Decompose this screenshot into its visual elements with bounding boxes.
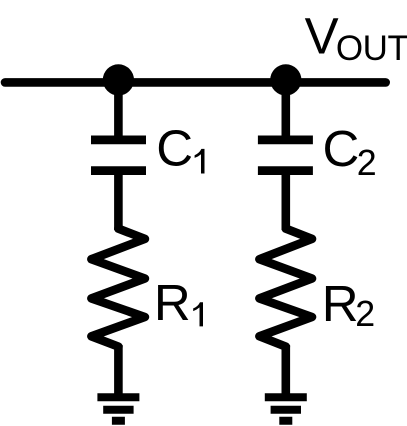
wire W7: R2 down to ground GND2 (281, 345, 290, 394)
wire W2: junction J1 down to C1 top plate (114, 80, 123, 140)
label R1 (154, 274, 203, 331)
capacitor C2 (258, 140, 313, 171)
wire W3: C1 bottom plate down to R1 (114, 171, 123, 230)
svg-text:C: C (323, 120, 360, 177)
svg-text:R: R (322, 275, 359, 332)
node J2: junction dot at column 2 (270, 64, 301, 95)
wire W5: junction J2 down to C2 top plate (281, 80, 290, 140)
node J1: junction dot at column 1 (103, 64, 134, 95)
ground GND1 (97, 397, 139, 421)
label C1 (156, 119, 204, 176)
capacitor C1 (91, 140, 146, 171)
svg-text:R: R (154, 274, 191, 331)
label R2 (322, 275, 375, 334)
label C2 (323, 120, 377, 183)
resistor R1 (91, 229, 144, 347)
resistor R2 (259, 229, 312, 347)
ground GND2 (265, 397, 307, 421)
wire W1: top horizontal output bus (5, 78, 386, 87)
svg-text:OUT: OUT (336, 29, 407, 68)
svg-text:V: V (305, 7, 339, 64)
svg-text:2: 2 (357, 143, 377, 183)
wire W6: C2 bottom plate down to R2 (281, 171, 290, 230)
label VOUT (305, 7, 407, 68)
wire W4: R1 down to ground GND1 (114, 345, 123, 394)
svg-text:2: 2 (355, 294, 375, 334)
svg-text:C: C (156, 119, 193, 176)
